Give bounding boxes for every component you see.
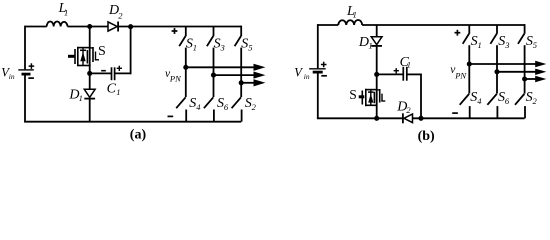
wire bottom rail (a) [24,121,241,123]
diode D2 (b) [403,113,413,123]
svg-text:PN: PN [454,70,467,80]
svg-text:2: 2 [252,102,257,112]
svg-text:1: 1 [193,43,197,53]
wire top-left segment (a) [25,26,47,28]
MOSFET S (a) [68,47,99,66]
phase node dot 2 (b) [494,69,499,74]
diode D1 (b) [371,37,382,46]
node dot below D1 (b) [374,72,379,77]
leg 3 switches S5 S2 (b) [524,24,526,34]
wire left vertical upper (b) [317,24,319,68]
arrowhead 3 (a) [254,79,266,86]
svg-text:(b): (b) [418,129,435,144]
phase node dot 3 (a) [239,80,244,85]
phase output line 1 (a) [186,66,255,68]
phase node dot 2 (a) [211,73,216,78]
leg 1 switches S1 S4 (a) [185,27,187,37]
battery Vin (a) [18,63,34,78]
capacitor C1 minus sign (a) [101,70,106,72]
svg-text:1: 1 [79,93,83,103]
svg-text:2: 2 [406,105,411,115]
phase node dot 1 (b) [467,61,472,66]
svg-text:in: in [9,72,15,81]
inverter legs (b) [460,24,537,118]
inductor L3 coil (b) [338,20,362,25]
diode D1 (a) [84,89,95,98]
diode D2 (a) [108,22,118,32]
wire top-left segment (b) [318,24,339,26]
svg-text:D: D [358,35,369,50]
node dot top wire left (a) [87,24,92,29]
node dot MOSFET source on rail (b) [374,116,379,121]
wire top right segment (b) [362,24,524,26]
inductor L3 coil (a) [47,22,68,27]
svg-text:4: 4 [477,96,482,106]
svg-text:1: 1 [353,10,357,20]
svg-text:4: 4 [196,102,201,112]
arrowhead 3 (b) [535,76,546,82]
arrowhead 2 (b) [535,69,546,75]
node dot top wire right (a) [128,24,133,29]
svg-text:1: 1 [368,41,372,51]
svg-text:1: 1 [478,40,482,50]
wire C1 right to riser corner (b) [407,73,421,75]
svg-text:PN: PN [169,74,182,84]
vPN minus marker (b) [452,112,458,114]
leg 2 switches S3 S6 (b) [496,25,498,34]
svg-text:6: 6 [505,96,510,106]
wire node to C1 left (b) [377,73,403,75]
wire riser down to rail (b) [420,74,422,119]
MOSFET S (b) [359,89,386,106]
phase node dot 3 (b) [522,76,527,81]
vPN plus marker (b) [455,30,461,36]
wire C1 right to riser (a) [115,72,131,74]
arrowhead 2 (a) [254,72,266,79]
phase output line 1 (b) [469,63,536,65]
wire D1 MOSFET vertical (b) [376,25,378,37]
phase output line 3 (a) [241,82,254,84]
capacitor C1 plus sign (b) [394,68,399,73]
svg-text:(a): (a) [130,127,147,142]
wire node to C1 left (a) [90,72,111,74]
svg-text:in: in [304,72,310,81]
svg-text:5: 5 [533,40,537,50]
wire riser to top node (a) [130,27,132,75]
svg-text:1: 1 [64,7,68,17]
phase output line 3 (b) [525,78,537,80]
svg-text:5: 5 [248,43,252,53]
svg-text:1: 1 [407,59,411,69]
capacitor C1 plates (a) [112,67,115,80]
battery Vin (b) [309,62,327,76]
wire bottom rail left of D2 (b) [317,117,402,119]
svg-text:2: 2 [118,11,123,21]
inverter legs (a) [176,26,254,122]
leg 3 switches S5 S2 (a) [240,26,242,37]
wire left vertical lower (a) [24,75,26,122]
node dot below MOSFET (a) [87,71,92,76]
wire left vertical lower (b) [317,73,319,118]
vPN minus marker (a) [168,115,174,117]
svg-text:6: 6 [224,102,229,112]
arrowhead 1 (b) [535,61,546,67]
svg-text:3: 3 [504,40,509,50]
wire top right segment after D2 (a) [118,26,241,28]
capacitor C1 plates (b) [403,67,407,81]
wire MOSFET drain vertical (a) [89,27,91,90]
leg 2 switches S3 S6 (a) [213,27,215,37]
svg-text:C: C [107,82,117,97]
leg 1 switches S1 S4 (b) [468,25,470,34]
arrowhead 1 (a) [254,64,266,71]
svg-text:S: S [349,87,357,102]
phase node dot 1 (a) [183,65,188,70]
svg-text:3: 3 [220,43,225,53]
node dot riser on rail (b) [418,116,423,121]
phase output line 2 (b) [497,71,536,73]
capacitor C1 plus sign (a) [117,66,122,71]
svg-text:S: S [98,44,106,59]
wire bottom rail right of D2 (b) [412,117,524,119]
wire D1 to bottom rail (a) [89,99,91,122]
vPN plus marker (a) [172,28,178,34]
svg-text:1: 1 [116,87,120,97]
wire left vertical upper (a) [24,26,26,70]
phase output line 2 (a) [214,74,255,76]
wire top mid segment (a) [68,26,108,28]
